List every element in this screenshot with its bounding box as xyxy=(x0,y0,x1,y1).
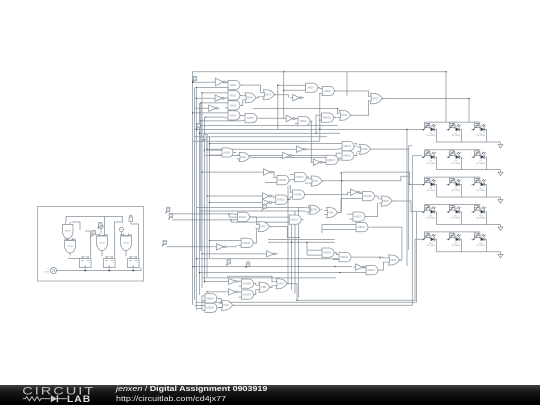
wire lad-B2 xyxy=(196,97,212,99)
AND gate AND11 xyxy=(339,142,357,151)
svg-text:XNOR8: XNOR8 xyxy=(242,283,251,286)
LED row 2 rail xyxy=(437,157,501,170)
svg-text:AND10: AND10 xyxy=(323,117,331,120)
wire net-A18in xyxy=(322,225,402,233)
wire net-AND5out xyxy=(260,117,284,119)
svg-text:AND4: AND4 xyxy=(230,114,237,117)
junction j27 xyxy=(206,291,207,292)
wire trunk-mid-3 xyxy=(294,211,296,294)
wire net-AND26in xyxy=(265,172,274,183)
gate XOR4 (pointing down) xyxy=(64,238,76,256)
svg-text:XNOR9: XNOR9 xyxy=(242,294,251,297)
svg-text:(TIL-3016): (TIL-3016) xyxy=(476,218,485,220)
svg-text:(TIL-3016): (TIL-3016) xyxy=(476,135,485,137)
wire lad-A15 xyxy=(210,239,239,241)
svg-text:OR19: OR19 xyxy=(382,200,389,203)
svg-text:AND2: AND2 xyxy=(230,94,237,97)
junction j8 xyxy=(200,120,201,121)
AND gate AND2 xyxy=(225,91,243,100)
OR gate OR17 xyxy=(368,93,385,104)
wire bot-3 xyxy=(233,156,412,305)
svg-text:XNOR7: XNOR7 xyxy=(295,176,304,179)
svg-text:AND18: AND18 xyxy=(357,226,365,229)
node flag NS1 xyxy=(97,223,102,229)
AND gate AND28 xyxy=(360,192,378,201)
wire lad-B1617 xyxy=(205,281,227,292)
resistor+LED D3 xyxy=(447,123,462,137)
AND gate AND10 xyxy=(319,113,337,122)
wire net-A13out xyxy=(338,159,341,161)
wire net-lad-B1011 xyxy=(207,196,260,203)
junction j14 xyxy=(206,149,207,150)
wire trunk-left-6 xyxy=(204,117,206,283)
wire trunk-left-2 xyxy=(194,88,196,300)
svg-text:AND9: AND9 xyxy=(300,120,307,123)
inverter B8 xyxy=(280,152,294,158)
svg-text:OR9: OR9 xyxy=(278,283,284,286)
AND gate AND21 xyxy=(363,266,381,275)
wire feed-row2 xyxy=(372,146,422,156)
inverter B16 xyxy=(226,278,240,284)
inverter B9 xyxy=(311,159,325,165)
resistor+LED D12 xyxy=(447,206,462,220)
svg-text:AND24: AND24 xyxy=(206,297,214,300)
junction j2 xyxy=(196,87,197,88)
ground GND3 xyxy=(498,197,503,203)
junction j37 xyxy=(319,128,320,129)
wire row2-vfeeds xyxy=(425,150,475,151)
inverter B13 xyxy=(264,251,277,257)
node flag N1 xyxy=(192,76,197,82)
svg-text:AND6: AND6 xyxy=(223,151,230,154)
wire net-B4out xyxy=(273,172,274,178)
wire trunk-left-5 xyxy=(201,93,203,288)
CircuitLab logo xyxy=(0,385,110,405)
wire lad-B8 xyxy=(205,155,281,157)
inverter B2 xyxy=(213,95,227,101)
svg-text:AND13: AND13 xyxy=(327,159,335,162)
svg-text:(TIL-3016): (TIL-3016) xyxy=(451,163,460,165)
wire row3-top xyxy=(425,176,481,178)
ground GND4 xyxy=(498,224,503,230)
svg-text:AND12: AND12 xyxy=(343,155,351,158)
wire top-rail xyxy=(193,72,447,122)
junction j10 xyxy=(199,133,200,134)
junction j15 xyxy=(209,143,210,144)
OR gate OR10 xyxy=(219,300,235,310)
inverter B6 xyxy=(284,115,297,121)
node flag NE xyxy=(245,262,250,268)
junction j35 xyxy=(283,90,284,91)
junction j5 xyxy=(200,102,201,103)
AND gate AND16 xyxy=(273,195,291,204)
wire net-A7in xyxy=(278,72,303,130)
wire bus-u4 xyxy=(193,140,320,142)
wire row5-vfeeds xyxy=(425,232,475,233)
AND gate AND27 xyxy=(350,212,368,221)
wire row2-top xyxy=(425,149,481,151)
AND gate AND17 xyxy=(286,215,304,224)
wire top-drop-347 xyxy=(346,72,348,96)
resistor+LED D11 xyxy=(422,206,437,220)
wire trunk-right-2 xyxy=(408,146,410,250)
wire bus-u1 xyxy=(196,128,421,130)
svg-text:AND20: AND20 xyxy=(340,256,348,259)
AND gate AND19 xyxy=(319,248,337,257)
wire bus-n1 xyxy=(268,240,335,243)
wire feed-row3 xyxy=(342,172,422,184)
AND gate AND4 xyxy=(225,111,243,120)
wire net-A8-OR17 xyxy=(335,91,369,96)
svg-text:(TIL-3016): (TIL-3016) xyxy=(426,135,435,137)
inverter B1 xyxy=(213,78,228,86)
svg-text:OR18: OR18 xyxy=(361,148,368,151)
inverter B11 xyxy=(260,199,273,205)
resistor+LED D4 xyxy=(472,123,487,137)
svg-text:OR17: OR17 xyxy=(372,97,379,100)
OR gate OR5 xyxy=(256,222,272,232)
inverter B15 xyxy=(353,264,366,270)
svg-text:(TIL-3016): (TIL-3016) xyxy=(476,245,485,247)
wire net-A27-OR19 xyxy=(365,203,377,217)
svg-text:(TIL-3016): (TIL-3016) xyxy=(476,163,485,165)
inverter B12 xyxy=(214,244,228,250)
wire bot-1 xyxy=(287,239,415,300)
inverter B5 xyxy=(290,95,304,101)
XOR gate XOR1 xyxy=(305,205,322,214)
resistor+LED D8 xyxy=(422,178,437,192)
junction j39 xyxy=(337,108,338,109)
probe flag P1 xyxy=(99,224,103,233)
logo resistor zigzag xyxy=(23,397,44,401)
wire trunk-mid-4 xyxy=(298,207,300,297)
svg-text:(TIL-3016): (TIL-3016) xyxy=(451,135,460,137)
wire net-A20-OR20 xyxy=(351,256,385,259)
junction j12 xyxy=(409,184,410,185)
flip-flop FF2 xyxy=(104,256,116,272)
inverter B17 xyxy=(226,289,240,295)
svg-text:(TIL-3016): (TIL-3016) xyxy=(426,190,435,192)
wire net-A26-X7 xyxy=(289,175,291,181)
flip-flop FF3 xyxy=(128,256,140,272)
inverter B7 xyxy=(294,146,307,152)
flip-flop FF1 xyxy=(80,256,92,272)
junction j36 xyxy=(283,71,284,72)
wire net-A2223-OR8 xyxy=(254,284,256,295)
wire net-OR3out xyxy=(252,156,324,158)
wire trunk-left-7 xyxy=(206,134,208,277)
wire feed-row4 xyxy=(393,201,422,212)
AND gate AND3 xyxy=(225,101,243,110)
wire net-B7-A11 xyxy=(306,148,340,150)
wire net-A27in xyxy=(347,214,350,219)
wire net-A7A8 xyxy=(318,88,320,129)
OR gate OR7 xyxy=(309,176,325,186)
resistor+LED D9 xyxy=(447,178,462,192)
footer bar xyxy=(0,385,540,405)
wire lad-A6 xyxy=(207,137,219,155)
svg-text:AND19: AND19 xyxy=(323,252,331,255)
svg-text:AND8: AND8 xyxy=(324,90,331,93)
sub-circuit wires xyxy=(57,217,141,271)
AND gate XNOR9 xyxy=(239,290,257,299)
junction j17 xyxy=(206,195,207,196)
svg-text:AND3: AND3 xyxy=(230,104,237,107)
wire bus-l3 xyxy=(200,272,364,274)
junction j44 xyxy=(339,272,340,273)
inverter B14 xyxy=(348,189,361,195)
svg-text:AND25: AND25 xyxy=(206,307,214,310)
wire row1-in xyxy=(422,128,425,130)
wire bus-m2 xyxy=(200,210,306,212)
OR gate OR2A xyxy=(261,90,277,100)
logo diode xyxy=(44,398,50,400)
gate XOR6 (pointing down) xyxy=(120,234,132,254)
wire bus-m3 xyxy=(202,253,264,255)
wire net-B12out xyxy=(226,245,236,246)
wire trunk-left-1 xyxy=(192,79,194,305)
junction j25 xyxy=(199,272,200,273)
node flag N2 xyxy=(196,123,201,129)
junction j18 xyxy=(209,202,210,203)
svg-text:(TIL-3016): (TIL-3016) xyxy=(451,190,460,192)
AND gate AND1 xyxy=(225,81,243,90)
junction j16 xyxy=(201,171,202,172)
wire net-A16a-A16 xyxy=(288,185,290,200)
resistor+LED D14 xyxy=(422,233,437,247)
junction j9 xyxy=(196,129,197,130)
svg-text:(TIL-3016): (TIL-3016) xyxy=(426,245,435,247)
junction j33 xyxy=(340,172,341,173)
AND gate AND13 xyxy=(323,155,341,164)
wire row5-in xyxy=(422,238,425,240)
LED row 5 rail xyxy=(437,239,501,252)
inverter B10 xyxy=(260,193,273,199)
svg-text:AND21: AND21 xyxy=(367,269,375,272)
LED row 4 rail xyxy=(437,212,501,225)
AND gate AND9 xyxy=(295,117,313,126)
junction j24 xyxy=(196,258,197,259)
resistor+LED D16 xyxy=(472,233,487,247)
inverter B3 xyxy=(206,105,220,111)
junction j29 xyxy=(468,98,469,99)
svg-text:OR6: OR6 xyxy=(329,211,335,214)
AND gate AND20 xyxy=(336,253,354,262)
svg-text:(TIL-3016): (TIL-3016) xyxy=(451,245,460,247)
wire net-A2A3-OR xyxy=(240,95,242,105)
wire trunk-left-9 xyxy=(200,103,202,251)
resistor+LED D15 xyxy=(447,233,462,247)
junction j11 xyxy=(341,180,342,181)
AND gate XNOR6 xyxy=(290,190,308,199)
wire bus-l1 xyxy=(193,266,352,268)
wire or7-out xyxy=(323,176,410,181)
junction j3 xyxy=(201,92,202,93)
wire lad-B4 xyxy=(202,171,261,173)
AND gate AND6 xyxy=(219,148,236,157)
wire net-A16-B14 xyxy=(305,192,349,194)
svg-text:XOR6: XOR6 xyxy=(123,242,130,244)
wire row3-in xyxy=(422,183,425,185)
wire row1-vfeeds xyxy=(425,122,475,123)
wire net-A10in xyxy=(316,115,320,141)
AND gate XNOR7 xyxy=(292,173,310,182)
AND gate AND24 xyxy=(202,294,220,303)
AND gate XNOR8 xyxy=(239,279,257,288)
svg-text:(TIL-3016): (TIL-3016) xyxy=(476,190,485,192)
svg-text:AND14: AND14 xyxy=(239,216,247,219)
wire bus-l4 xyxy=(202,277,336,279)
wire net-A2425-OR10 xyxy=(219,298,221,307)
junction j34 xyxy=(277,85,278,86)
junction j43 xyxy=(334,266,335,267)
clock source V1 xyxy=(44,267,56,273)
AND gate AND8 xyxy=(319,86,337,95)
resistor+LED D2 xyxy=(422,123,437,137)
OR gate OR6 xyxy=(324,208,340,218)
junction j13 xyxy=(204,149,205,150)
svg-text:OR3: OR3 xyxy=(241,156,247,159)
svg-text:(TIL-3016): (TIL-3016) xyxy=(451,218,460,220)
wire feed-row5 xyxy=(398,239,422,260)
AND gate AND18 xyxy=(353,223,371,232)
node flag NB xyxy=(168,213,173,219)
junction j22 xyxy=(201,253,202,254)
wire in-c xyxy=(167,246,214,248)
node flag NF xyxy=(262,204,267,210)
wire net-A9 xyxy=(295,119,311,163)
wire net-A28-OR19 xyxy=(375,196,378,199)
wire trunk-left-3 xyxy=(195,88,197,310)
node flag N3 xyxy=(203,135,208,141)
probe flag P2 xyxy=(119,227,123,236)
svg-text:AND11: AND11 xyxy=(343,145,351,148)
junction j20 xyxy=(230,219,231,220)
wire row4-in xyxy=(422,211,425,213)
svg-text:(TIL-3016): (TIL-3016) xyxy=(426,163,435,165)
AND gate AND5 xyxy=(242,114,260,123)
junction j21 xyxy=(209,240,210,241)
wire net-A19-A20 xyxy=(333,253,336,260)
junction j32 xyxy=(296,300,297,301)
wire bot-2 xyxy=(196,212,416,302)
wire net-B9-A12 xyxy=(323,158,340,162)
wire net-OR5out xyxy=(270,227,300,238)
junction j31 xyxy=(406,129,407,130)
OR gate OR3A xyxy=(243,93,259,103)
resistor+LED D10 xyxy=(472,178,487,192)
wire trunk-left-4 xyxy=(199,103,201,295)
AND gate AND14 xyxy=(235,212,253,221)
svg-text:OR20: OR20 xyxy=(390,259,397,262)
svg-text:AND1: AND1 xyxy=(230,84,237,87)
wire bus-m1 xyxy=(196,206,305,208)
wire net-OR6-A28 xyxy=(338,199,360,213)
ground GND2 xyxy=(498,170,503,176)
junction j40 xyxy=(287,199,288,200)
OR gate OR20 xyxy=(386,255,402,265)
sub-circuit bounding box xyxy=(38,207,144,282)
wire net-OR4in xyxy=(334,109,338,118)
wire trunk-mid-2 xyxy=(291,225,293,290)
wire in-b xyxy=(172,220,286,222)
wire net-A19in xyxy=(307,242,319,255)
wire row4-top xyxy=(425,204,481,206)
svg-text:AND27: AND27 xyxy=(354,216,362,219)
wire trunk-right-3 xyxy=(401,227,403,260)
AND gate AND25 xyxy=(202,303,220,312)
junction j30 xyxy=(192,81,193,82)
gate XOR5 (pointing down) xyxy=(96,234,108,254)
ground GND5 xyxy=(498,252,503,258)
wire lad-B1 xyxy=(193,81,214,83)
svg-text:OR5: OR5 xyxy=(261,226,267,229)
wire row5-top xyxy=(425,231,481,233)
svg-text:AND5: AND5 xyxy=(247,117,254,120)
svg-text:XNOR6: XNOR6 xyxy=(293,194,302,197)
junction j6 xyxy=(192,112,193,113)
main schematic group xyxy=(162,71,503,312)
LED row 1 rail xyxy=(437,129,501,142)
wire row1-top xyxy=(425,121,481,123)
gate AND0 (pointing down) xyxy=(63,222,74,241)
wire net-OR4-OR17 xyxy=(351,101,369,116)
svg-text:OR10: OR10 xyxy=(223,304,230,307)
wire lad-A4a xyxy=(193,112,225,114)
OR gate OR19 xyxy=(379,196,395,206)
svg-text:OR16: OR16 xyxy=(341,114,348,117)
wire lad-A3a xyxy=(201,102,225,104)
svg-text:OR8: OR8 xyxy=(261,286,267,289)
OR gate OR3 xyxy=(237,153,252,162)
junction j26 xyxy=(204,281,205,282)
svg-text:OR2A: OR2A xyxy=(265,94,272,97)
wire trunk-right-1 xyxy=(406,129,408,266)
wire trunk-mid-1 xyxy=(287,186,289,285)
ground GND1 xyxy=(498,142,503,148)
svg-text:(TIL-3016): (TIL-3016) xyxy=(426,218,435,220)
svg-text:XOR5: XOR5 xyxy=(99,242,106,244)
wire bus-u5 xyxy=(253,108,338,110)
node flag NS3 xyxy=(129,215,133,222)
svg-text:AND28: AND28 xyxy=(364,195,372,198)
node flag NA xyxy=(165,207,170,213)
svg-text:LAB: LAB xyxy=(67,395,91,405)
junction j4 xyxy=(196,98,197,99)
wire bus-u0 xyxy=(196,125,337,127)
svg-text:XOR4: XOR4 xyxy=(67,246,74,248)
resistor+LED D7 xyxy=(472,151,487,165)
wire bus-u3 xyxy=(195,136,328,138)
resistor+LED D5 xyxy=(422,151,437,165)
AND gate AND12 xyxy=(339,151,357,160)
svg-text:AND15: AND15 xyxy=(242,242,250,245)
junction j45 xyxy=(379,257,380,258)
wire net-A21-OR20 xyxy=(378,262,385,270)
junction j1 xyxy=(192,82,193,83)
junction j23 xyxy=(192,266,193,267)
AND gate AND7 xyxy=(303,83,321,92)
junction j19 xyxy=(228,213,229,214)
junction j38 xyxy=(315,133,316,134)
wire lad-A5 xyxy=(201,116,242,121)
LED row 3 rail xyxy=(437,184,501,197)
wire net-OR2out xyxy=(275,95,289,98)
wire lad-A11 xyxy=(207,144,339,150)
svg-text:AND17: AND17 xyxy=(290,219,298,222)
wire net-A1-OR2 xyxy=(240,85,260,98)
resistor+LED D6 xyxy=(447,151,462,165)
